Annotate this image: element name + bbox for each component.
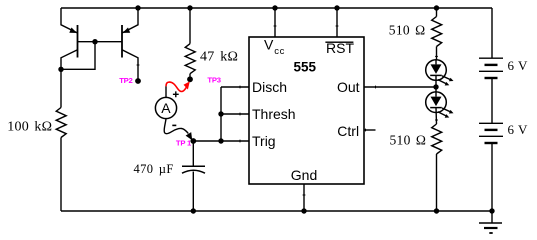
node 47k on rail	[187, 5, 192, 10]
node thresh junction	[218, 111, 223, 116]
wire top supply rail	[61, 7, 492, 9]
resistor 510b	[432, 124, 442, 154]
wire 47k top	[189, 8, 191, 44]
LED D1 triangle	[431, 64, 442, 74]
LED D1 light arrow 1	[442, 76, 452, 80]
transistor Q2 emitter wire	[122, 8, 138, 33]
svg-text:TP3: TP3	[207, 75, 220, 84]
LED D1 circle	[426, 60, 447, 81]
tick 510a LED1 wire	[435, 55, 438, 57]
wire disch	[221, 86, 249, 88]
node TP3	[187, 76, 193, 82]
battery B1 plate short	[485, 64, 498, 66]
svg-text:A: A	[161, 100, 171, 116]
node Gnd rail junction	[301, 208, 306, 213]
wire thresh	[221, 113, 249, 115]
transistor Q2 bar	[121, 25, 123, 58]
wire Vcc pin	[274, 8, 276, 37]
capacitor C1 bottom plate	[182, 170, 205, 173]
wire 510a to LED1	[436, 47, 438, 60]
battery B1 plate long top	[479, 57, 503, 59]
wire black jumper to TP1	[164, 119, 188, 134]
node battery rail junction	[489, 208, 494, 213]
svg-text:cc: cc	[274, 46, 285, 57]
node TP1	[190, 138, 196, 144]
resistor 100k	[56, 108, 66, 138]
svg-text:Gnd: Gnd	[291, 167, 317, 183]
LED D2 anode lead	[435, 87, 437, 97]
label IC RST overline	[325, 42, 353, 43]
transistor Q1 bar	[77, 25, 79, 58]
svg-text:470 µF: 470 µF	[134, 162, 174, 176]
svg-text:Out: Out	[337, 79, 360, 95]
svg-text:510 Ω: 510 Ω	[390, 132, 427, 147]
wire bottom ground rail	[61, 210, 492, 212]
IC U1 555 box	[249, 37, 364, 184]
tick RST pin	[336, 25, 339, 27]
transistor Q1 emitter arrow	[69, 28, 77, 34]
LED D2 cathode lead	[435, 108, 438, 124]
wire TP1 to capacitor	[192, 141, 194, 166]
node trig junction	[218, 138, 223, 143]
svg-text:47 kΩ: 47 kΩ	[200, 50, 238, 65]
LED D2 circle	[426, 92, 447, 113]
wire base to collector tie	[61, 42, 95, 70]
resistor 47k	[185, 44, 195, 74]
tick LED2 wire	[435, 119, 438, 121]
tick ctrl stub	[365, 129, 367, 132]
wire out pin to LEDs	[364, 86, 436, 88]
tick Vcc pin	[274, 25, 277, 27]
svg-text:555: 555	[294, 59, 317, 74]
svg-text:V: V	[264, 37, 274, 53]
wire red jumper to TP3	[166, 82, 187, 91]
node TP2	[135, 78, 141, 84]
battery B2 plate short bottom	[485, 142, 498, 144]
wire 510b to rail	[436, 154, 438, 211]
node Q1 collector junction	[58, 67, 63, 72]
tick disch pin	[239, 86, 241, 89]
wire Q1 Q2 base link	[78, 41, 123, 43]
node Vcc on rail	[272, 5, 277, 10]
wire battery link	[491, 78, 493, 123]
node capacitor rail junction	[191, 208, 196, 213]
svg-text:TP 1: TP 1	[176, 138, 192, 147]
ground bar 1	[479, 222, 502, 224]
ammeter minus sign	[172, 124, 176, 126]
wire Gnd pin	[303, 184, 305, 211]
svg-text:Thresh: Thresh	[252, 106, 296, 122]
LED D2 cathode bar	[430, 107, 442, 109]
LED D1 cathode lead	[435, 75, 437, 87]
transistor Q2 collector	[122, 50, 138, 81]
svg-text:6 V: 6 V	[508, 122, 529, 137]
battery B1 plate long bottom	[479, 70, 503, 72]
wire battery to ground	[491, 143, 493, 223]
LED D1 anode lead	[435, 60, 437, 65]
capacitor C1 top plate	[182, 165, 205, 167]
arrowhead red jumper	[184, 81, 190, 89]
node out LED junction	[433, 84, 438, 89]
battery B1 plate short bottom	[485, 77, 498, 79]
wire 47k bottom to TP3	[189, 74, 191, 80]
resistor 510a	[432, 17, 442, 47]
wire ctrl stub	[364, 129, 376, 131]
svg-text:Trig: Trig	[252, 133, 276, 149]
wire right vertical from top rail to battery	[491, 8, 493, 58]
arrowhead black jumper	[186, 132, 193, 140]
transistor Q1 collector	[61, 50, 78, 69]
transistor Q2 emitter arrow	[123, 28, 131, 34]
wire 100k bottom	[60, 138, 62, 212]
svg-text:TP2: TP2	[119, 76, 132, 85]
transistor Q1 emitter wire	[61, 8, 78, 33]
LED D1 light arrow 2	[438, 80, 448, 85]
wire trig line TP1 to IC	[193, 140, 249, 142]
ammeter plus sign	[173, 91, 179, 97]
battery B2 plate long top	[479, 122, 503, 124]
node RST on rail	[334, 5, 339, 10]
wire disch-thresh-trig vertical	[220, 87, 222, 141]
tick out pin	[375, 86, 377, 89]
svg-text:510 Ω: 510 Ω	[389, 22, 426, 37]
svg-text:100 kΩ: 100 kΩ	[7, 120, 52, 135]
wire capacitor to rail	[192, 172, 194, 212]
tick trig pin	[239, 140, 241, 143]
battery B2 plate short	[485, 129, 498, 131]
LED D1 cathode bar	[430, 74, 442, 76]
ammeter top lead	[165, 86, 167, 97]
LED D2 light arrow 2	[438, 112, 448, 117]
svg-text:Disch: Disch	[252, 79, 287, 95]
battery B2 plate long bottom	[479, 135, 503, 137]
node 510b rail junction	[434, 208, 439, 213]
tick thresh pin	[239, 113, 241, 116]
svg-text:6 V: 6 V	[508, 58, 529, 73]
LED D2 light arrow 1	[442, 108, 452, 112]
node Q2 emitter on rail	[135, 5, 140, 10]
ground bar 3	[489, 232, 492, 234]
node base junction	[92, 39, 97, 44]
ground bar 2	[484, 227, 498, 229]
node 510a on rail	[434, 5, 439, 10]
tick Q2 collector wire	[137, 64, 140, 66]
ammeter A1 circle	[155, 97, 176, 118]
tick Gnd pin	[303, 194, 306, 196]
wire 510a top	[436, 8, 438, 17]
LED D2 triangle	[431, 97, 442, 107]
svg-text:Ctrl: Ctrl	[337, 123, 359, 139]
wire 100k top	[60, 69, 62, 107]
wire RST pin	[336, 8, 338, 37]
